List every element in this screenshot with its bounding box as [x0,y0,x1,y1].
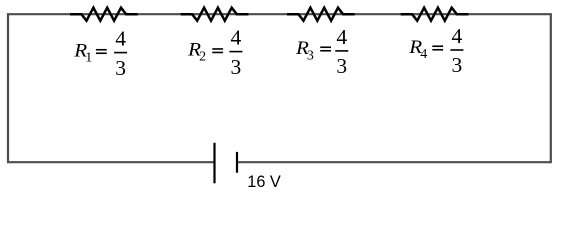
svg-text:4: 4 [420,47,427,62]
svg-text:16 V: 16 V [247,173,281,191]
svg-text:4: 4 [115,27,126,51]
svg-text:3: 3 [336,54,347,78]
svg-text:4: 4 [336,25,347,49]
svg-text:3: 3 [231,55,242,79]
svg-text:3: 3 [115,56,126,80]
svg-text:4: 4 [452,24,463,48]
svg-text:1: 1 [85,50,92,65]
svg-text:2: 2 [199,50,206,65]
svg-text:3: 3 [452,53,463,77]
svg-text:4: 4 [231,26,242,50]
svg-text:3: 3 [307,49,314,64]
